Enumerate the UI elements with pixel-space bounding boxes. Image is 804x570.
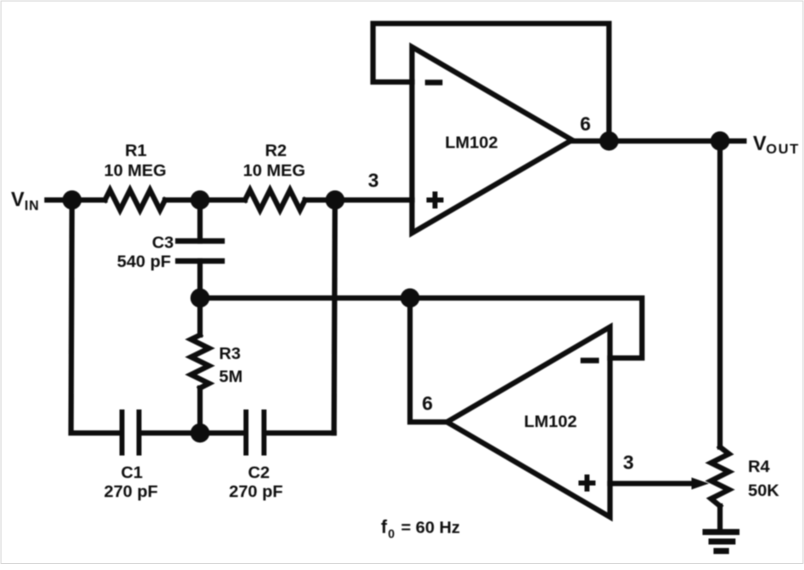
resistor R1 — [105, 190, 165, 210]
wire node A to R2 — [200, 197, 245, 202]
wire node D to C2 — [200, 430, 243, 435]
op-amp U2 — [447, 327, 610, 517]
capacitor C1 value label — [104, 463, 158, 501]
wire VOUT down to R4 — [717, 141, 722, 447]
wire node C to R3 — [197, 298, 202, 335]
pin 6 label U2 — [422, 393, 433, 415]
capacitor C3 — [178, 200, 222, 298]
node VOUT junction dot — [710, 131, 729, 150]
potentiometer R4 — [711, 447, 729, 506]
svg-text:V: V — [753, 133, 767, 155]
svg-text:C1: C1 — [121, 463, 143, 482]
svg-text:10 MEG: 10 MEG — [104, 161, 166, 180]
node VIN label — [11, 189, 40, 213]
resistor R3 value label — [219, 344, 243, 386]
svg-text:R2: R2 — [265, 141, 287, 160]
op-amp U1 — [412, 47, 572, 233]
svg-text:LM102: LM102 — [524, 412, 577, 431]
svg-text:0: 0 — [388, 527, 395, 541]
node VOUT label — [753, 133, 800, 157]
svg-text:R1: R1 — [125, 141, 147, 160]
capacitor C1 — [122, 412, 200, 453]
svg-text:= 60 Hz: = 60 Hz — [401, 518, 460, 537]
capacitor C2 — [246, 412, 334, 453]
wire C2 up to node B — [334, 200, 335, 433]
svg-text:R4: R4 — [748, 457, 770, 476]
wire R3 to node D — [197, 388, 202, 433]
node A junction dot — [190, 190, 209, 209]
svg-text:C3: C3 — [152, 233, 174, 252]
capacitor C3 value label — [117, 233, 174, 271]
svg-text:540 pF: 540 pF — [117, 252, 171, 271]
wire U1 output to VOUT node — [572, 138, 720, 143]
wire middle rail node C to U2 feedback — [200, 298, 642, 358]
wire VOUT stub — [720, 138, 744, 143]
svg-text:f: f — [381, 517, 388, 537]
svg-text:3: 3 — [623, 452, 634, 474]
resistor R2 value label — [243, 141, 305, 180]
wire VIN node to R1 — [72, 197, 105, 202]
wire left branch VIN node down to C1 — [71, 200, 119, 433]
svg-text:10 MEG: 10 MEG — [243, 161, 305, 180]
node middle rail junction dot — [400, 288, 419, 307]
op-amp U2 name label — [524, 412, 577, 431]
wire U2 plus input to R4 wiper — [610, 481, 695, 486]
svg-text:270 pF: 270 pF — [229, 482, 283, 501]
capacitor C2 value label — [229, 463, 283, 501]
wire node B to op-amp U1 plus input — [335, 197, 412, 202]
ground — [703, 532, 740, 551]
resistor R1 value label — [104, 141, 166, 180]
wire U2 output to middle rail — [410, 298, 447, 422]
svg-text:3: 3 — [368, 170, 379, 192]
pin 3 label U2 — [623, 452, 634, 474]
svg-text:OUT: OUT — [766, 141, 800, 157]
wire R2 to node B — [305, 197, 335, 202]
resistor R2 — [245, 190, 305, 210]
node B junction dot — [325, 190, 344, 209]
svg-text:C2: C2 — [248, 463, 270, 482]
wire R1 to node A — [165, 197, 200, 202]
op-amp U1 name label — [445, 133, 498, 152]
node C junction dot — [190, 288, 209, 307]
svg-text:6: 6 — [422, 393, 433, 415]
svg-text:270 pF: 270 pF — [104, 482, 158, 501]
wire U1 feedback loop — [373, 24, 609, 142]
resistor R4 value label — [748, 457, 780, 500]
wiper arrow R4 — [692, 478, 710, 490]
label f0 frequency — [381, 517, 460, 541]
svg-text:IN: IN — [25, 198, 40, 213]
svg-text:6: 6 — [580, 114, 591, 136]
resistor R3 — [191, 335, 209, 388]
pin 6 label U1 — [580, 114, 591, 136]
svg-text:5M: 5M — [219, 367, 243, 386]
wire R4 to ground — [717, 506, 722, 530]
pin 3 label U1 — [368, 170, 379, 192]
node U1 output junction dot — [599, 131, 618, 150]
svg-text:50K: 50K — [748, 481, 780, 500]
svg-text:R3: R3 — [219, 344, 241, 363]
svg-text:LM102: LM102 — [445, 133, 498, 152]
svg-text:V: V — [11, 189, 25, 211]
wire VIN stub — [47, 197, 66, 202]
node VIN junction dot — [62, 190, 81, 209]
node D junction dot — [190, 423, 209, 442]
